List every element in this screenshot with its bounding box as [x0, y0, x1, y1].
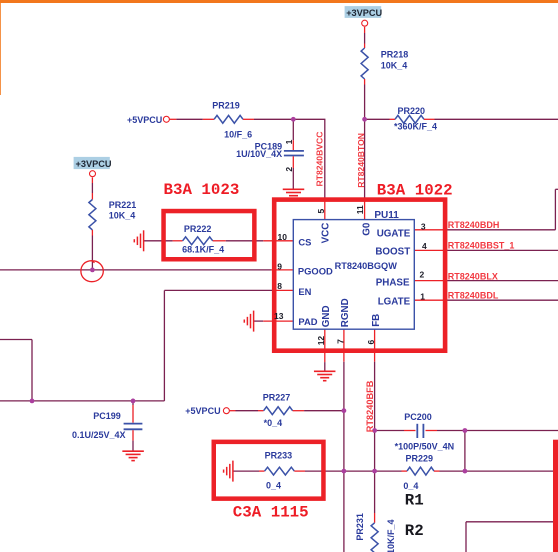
svg-text:1: 1	[284, 139, 294, 144]
svg-text:BOOST: BOOST	[375, 247, 410, 258]
svg-text:12: 12	[316, 336, 326, 346]
svg-text:+5VPCU: +5VPCU	[185, 406, 220, 416]
svg-text:2: 2	[420, 270, 425, 280]
svg-text:5: 5	[316, 209, 326, 214]
svg-text:GND: GND	[321, 305, 332, 327]
svg-text:*100P/50V_4N: *100P/50V_4N	[395, 442, 455, 452]
svg-text:7: 7	[335, 339, 345, 344]
svg-text:CS: CS	[298, 237, 311, 248]
svg-text:B3A 1023: B3A 1023	[164, 181, 240, 199]
svg-text:4: 4	[422, 241, 427, 251]
svg-text:6: 6	[366, 340, 376, 345]
svg-text:R1: R1	[405, 492, 424, 510]
svg-text:PU11: PU11	[374, 210, 399, 221]
svg-text:PR227: PR227	[263, 392, 291, 402]
svg-text:RT8240BVCC: RT8240BVCC	[315, 132, 325, 187]
svg-text:2: 2	[284, 167, 294, 172]
svg-text:9: 9	[277, 261, 282, 271]
svg-text:LGATE: LGATE	[378, 296, 411, 307]
svg-text:10/F_6: 10/F_6	[224, 129, 252, 139]
svg-text:PHASE: PHASE	[376, 278, 410, 289]
svg-text:8: 8	[277, 281, 282, 291]
svg-text:RT8240BBST_1: RT8240BBST_1	[448, 241, 515, 251]
svg-text:RT8240BGQW: RT8240BGQW	[335, 261, 398, 271]
svg-text:EN: EN	[298, 286, 311, 297]
svg-text:1U/10V_4X: 1U/10V_4X	[236, 149, 282, 159]
svg-text:11: 11	[355, 205, 365, 214]
svg-text:B3A 1022: B3A 1022	[377, 182, 453, 200]
svg-text:+3VPCU: +3VPCU	[346, 8, 382, 18]
svg-text:R2: R2	[405, 522, 424, 540]
svg-text:PR222: PR222	[184, 224, 212, 234]
svg-text:FB: FB	[371, 314, 382, 327]
svg-text:*10K/F_4: *10K/F_4	[386, 519, 396, 552]
svg-text:UGATE: UGATE	[377, 229, 411, 240]
svg-text:PR229: PR229	[406, 453, 434, 463]
svg-text:68.1K/F_4: 68.1K/F_4	[182, 245, 224, 255]
svg-text:PR218: PR218	[381, 49, 409, 59]
svg-text:PGOOD: PGOOD	[298, 266, 333, 277]
svg-text:RT8240BDH: RT8240BDH	[448, 220, 500, 230]
svg-text:10K_4: 10K_4	[109, 210, 136, 220]
svg-text:PR221: PR221	[109, 200, 137, 210]
svg-text:*360K/F_4: *360K/F_4	[394, 121, 437, 131]
svg-text:RT8240BFB: RT8240BFB	[365, 380, 375, 432]
svg-text:1: 1	[420, 291, 425, 301]
svg-text:10K_4: 10K_4	[381, 60, 408, 70]
svg-text:PC199: PC199	[93, 411, 121, 421]
svg-text:+5VPCU: +5VPCU	[127, 115, 162, 125]
svg-text:0.1U/25V_4X: 0.1U/25V_4X	[72, 430, 126, 440]
svg-text:RT8240BDL: RT8240BDL	[448, 291, 499, 301]
svg-text:PC200: PC200	[404, 412, 432, 422]
svg-text:VCC: VCC	[320, 223, 331, 244]
svg-text:PR233: PR233	[265, 450, 293, 460]
svg-text:13: 13	[274, 311, 284, 321]
svg-text:PR231: PR231	[355, 513, 365, 541]
svg-text:PR219: PR219	[212, 101, 240, 111]
svg-text:RGND: RGND	[340, 298, 351, 327]
svg-text:PR220: PR220	[398, 106, 426, 116]
svg-text:3: 3	[421, 221, 426, 231]
svg-text:10: 10	[278, 232, 288, 242]
svg-text:0_4: 0_4	[266, 481, 281, 491]
svg-text:*0_4: *0_4	[264, 418, 283, 428]
svg-text:0_4: 0_4	[403, 481, 418, 491]
svg-text:RT8240BTON: RT8240BTON	[356, 133, 366, 188]
svg-text:RT8240BLX: RT8240BLX	[448, 271, 498, 281]
svg-text:PAD: PAD	[298, 316, 317, 327]
svg-text:+3VPCU: +3VPCU	[76, 159, 112, 169]
svg-text:C3A 1115: C3A 1115	[233, 503, 309, 521]
svg-text:G0: G0	[361, 222, 372, 236]
